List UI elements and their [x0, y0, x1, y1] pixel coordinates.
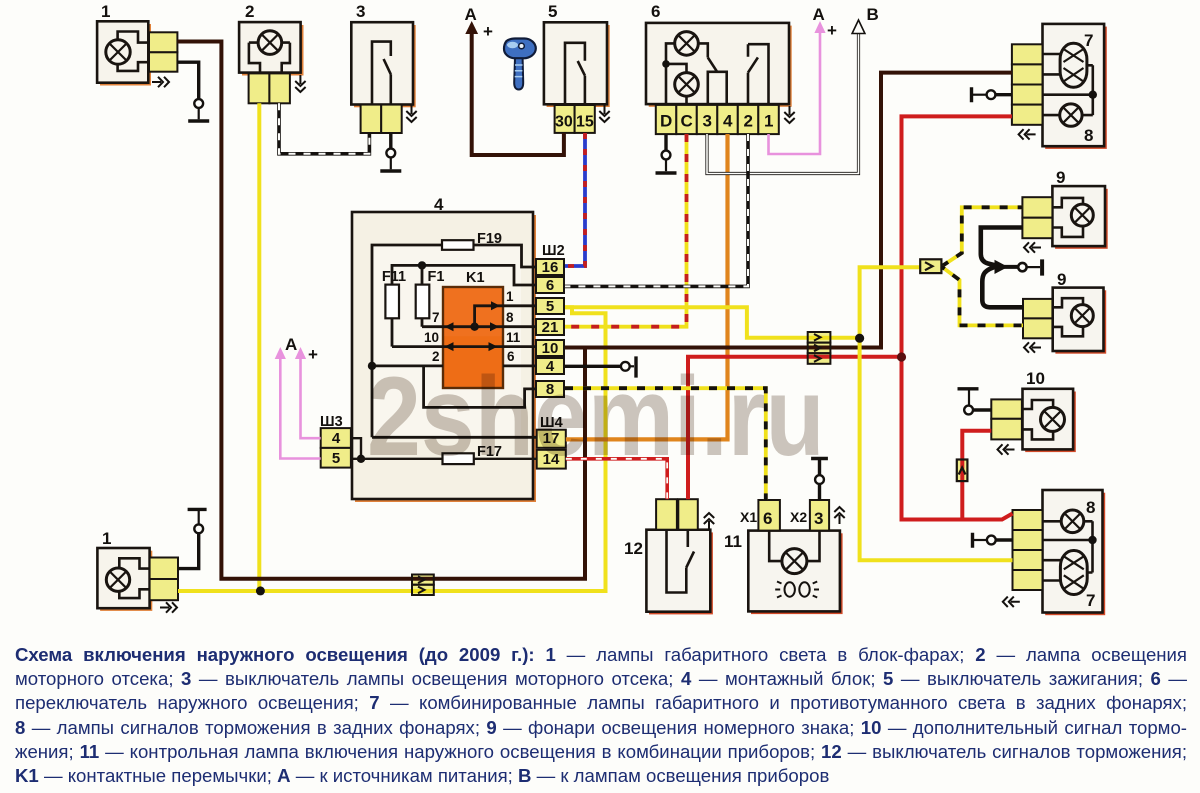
svg-text:A: A: [465, 5, 477, 24]
node yellow rear join: [855, 334, 864, 343]
svg-text:1: 1: [506, 289, 514, 304]
svg-text:6: 6: [763, 509, 772, 528]
rear lamp unit 7/8 lower (brake lamp 8, combined lamp 7): [1043, 490, 1106, 615]
licence plate lamp 9 (second): [1053, 288, 1107, 354]
wire F19 feed loop: [372, 245, 536, 437]
fuse F11: [382, 269, 406, 318]
connector of lamp 2: [249, 73, 290, 103]
jumper line 7-8: [422, 322, 536, 331]
additional brake light 10: [1023, 389, 1076, 452]
label 5: [548, 2, 557, 21]
svg-text:D: D: [660, 112, 672, 131]
svg-text:8: 8: [1084, 126, 1093, 145]
svg-text:3: 3: [356, 2, 365, 21]
svg-text:X1: X1: [740, 509, 757, 525]
arrow B (outline): [852, 20, 865, 34]
svg-text:4: 4: [434, 195, 444, 214]
svg-text:X2: X2: [790, 509, 807, 525]
jumper line 10-11: [392, 342, 536, 351]
svg-text:7: 7: [1086, 591, 1095, 610]
label 6: [651, 2, 660, 21]
wire F1 vertical: [421, 265, 424, 326]
wire line 2-6: [372, 364, 536, 367]
connector X2-3: [790, 500, 829, 531]
svg-text:K1: K1: [466, 270, 485, 286]
svg-text:21: 21: [542, 319, 559, 336]
wire pin 6 to fuse tops: [392, 265, 536, 285]
fuse F17: [443, 444, 503, 464]
lamp unit 1 lower (left block headlamp parking lamp): [97, 548, 152, 611]
ground lamp 1 lower: [178, 509, 207, 568]
svg-text:12: 12: [624, 539, 643, 558]
arrow A (pink): [814, 21, 825, 33]
wire orange: switch 6 pin 4 to Sh4-17: [566, 134, 728, 439]
svg-text:A: A: [285, 335, 297, 354]
svg-text:2: 2: [744, 112, 753, 131]
wire lamp common link lower: [1043, 521, 1093, 572]
node F17 line: [357, 455, 365, 463]
licence plate lamp 9 (first): [1052, 186, 1107, 249]
wire yellow: lamp 2 feed drop: [257, 103, 261, 591]
connector mark (right): [160, 602, 177, 612]
ground indicator lamp X2: [811, 459, 828, 501]
svg-text:5: 5: [546, 298, 554, 315]
svg-text:F1: F1: [428, 269, 445, 285]
wire dark-brown: lamp 1 upper feed loop: [177, 42, 585, 579]
svg-text:+: +: [827, 21, 837, 40]
connector mark (left): [998, 444, 1015, 454]
K1 pin labels: [424, 289, 521, 364]
label A plus (pink top): [813, 5, 838, 40]
wire dark-brown: Sh2-10 to rear lamp 7: [565, 73, 1012, 348]
wire yellow-black dashed: licence lamps split upper: [941, 207, 1022, 266]
wire black: licence lamps ground joint: [981, 228, 1023, 308]
svg-text:1: 1: [764, 112, 773, 131]
label 4: [434, 195, 444, 214]
dual-filament lamp 7 (oval): [1043, 43, 1093, 87]
svg-text:9: 9: [1057, 270, 1066, 289]
label A plus (ignition source): [465, 5, 494, 41]
mounting block 4 (fuse/relay box): [352, 212, 536, 502]
svg-text:2: 2: [245, 2, 254, 21]
wire black: Sh2-4 to body ground: [565, 356, 636, 377]
wire yellow: junction down to lower lamp 7: [860, 338, 1013, 560]
lamp unit 1 (top-left block headlamp parking lamp): [97, 21, 151, 85]
connector of upper 7/8 (four terminals): [1012, 44, 1043, 125]
rear lamp unit 7/8 upper (combined tail/fog lamp 7, brake lamp 8): [1043, 24, 1107, 149]
lamp 8 lower (round): [1043, 510, 1093, 533]
connector of lamp 9 first: [1022, 197, 1052, 238]
indicator lamp 11 (instrument cluster): [748, 531, 842, 615]
connector mark (right arrows): [152, 77, 169, 87]
connector mark (up): [834, 507, 844, 524]
connector of lower lamp 1: [150, 558, 178, 601]
connector Sh2: [536, 243, 565, 398]
connector X1-6: [740, 500, 780, 531]
connector of switch 3: [361, 105, 402, 133]
label K1: [466, 270, 485, 286]
svg-text:9: 9: [1056, 168, 1065, 187]
wire blue-red dashed: ignition 15 to Sh2-16: [565, 133, 585, 266]
label 7 lower: [1086, 591, 1095, 610]
wire to pin 17 (block bottom): [372, 436, 537, 439]
harness connector (vertical, lamp 10 feed): [957, 460, 968, 482]
label 12: [624, 539, 643, 558]
harness connector fills: [412, 259, 967, 595]
connector mark (left): [1024, 242, 1041, 252]
label 9 second: [1057, 270, 1066, 289]
connector of lamp unit 1 (two yellow terminals): [149, 32, 177, 71]
wire pink: Sh3-5 to source A: [280, 354, 320, 459]
lamp 8 (brake, round): [1043, 104, 1093, 126]
ground of lower 7/8: [973, 533, 1013, 548]
wire white: switch 6 pin 3 to arrow B: [707, 29, 859, 174]
wire pink: switch 6 pin 1 to arrow A: [769, 29, 821, 154]
label 1 lower: [102, 529, 111, 548]
label A plus (Sh3 source): [285, 335, 318, 364]
connector of lamp 9 second: [1023, 299, 1052, 338]
arrow A (dark): [465, 21, 478, 34]
svg-text:B: B: [867, 5, 879, 24]
svg-text:7: 7: [1084, 31, 1093, 50]
relay jumpers K1 (orange block): [443, 287, 503, 388]
svg-text:1: 1: [102, 529, 111, 548]
arrow A (pink left 1): [295, 347, 306, 359]
switch 3 (engine bay lamp switch): [351, 22, 415, 107]
node lamp link lower: [1088, 536, 1096, 544]
wire lamp common link: [1043, 65, 1093, 115]
svg-text:7: 7: [432, 310, 440, 325]
wire red: brake switch to rear junction: [688, 357, 902, 499]
svg-text:6: 6: [546, 277, 554, 294]
ground of lamp 10: [958, 389, 992, 415]
label 8 lower: [1086, 498, 1095, 517]
svg-text:1: 1: [101, 2, 110, 21]
wire red: junction to upper lamp 8: [902, 116, 1012, 356]
wire yellow: junction up to licence feed connector: [860, 267, 921, 338]
connector mark: [295, 75, 305, 92]
node lamp link: [1089, 91, 1097, 99]
svg-text:3: 3: [703, 112, 712, 131]
lamp 2 (engine bay illumination lamp): [239, 22, 303, 75]
svg-text:10: 10: [424, 330, 439, 345]
connector mark: [599, 105, 609, 122]
label B (instrument lighting): [867, 5, 879, 24]
ground of upper 7/8: [972, 87, 1012, 102]
svg-text:8: 8: [1086, 498, 1095, 517]
wire red: junction down to lamp 10 and lower lamp 8: [902, 357, 1013, 520]
wire yellow: Sh2-5 to rear harness: [565, 307, 860, 337]
ground switch 3: [380, 149, 401, 171]
wire yellow-black dashed: licence lamps split lower: [941, 267, 1023, 326]
svg-text:11: 11: [724, 532, 742, 551]
instrument light icon: [775, 582, 819, 598]
wire black: lamp 1 upper ground: [177, 62, 198, 99]
ground switch 6 D: [656, 151, 677, 173]
svg-text:4: 4: [332, 430, 341, 447]
fuse F19: [442, 231, 502, 250]
svg-text:F19: F19: [477, 231, 502, 247]
connector of lamp 10: [991, 399, 1022, 439]
harness connector (single, licence lamps feed): [920, 259, 941, 273]
wire F11 to line 10: [391, 318, 394, 347]
label 10: [1026, 369, 1045, 388]
svg-text:15: 15: [576, 114, 594, 131]
connectors of switch 12: [656, 499, 698, 530]
label 2: [245, 2, 254, 21]
jumper line 1: [475, 301, 536, 326]
label 3: [356, 2, 365, 21]
connector of lower 7/8 (four terminals): [1013, 510, 1043, 590]
wire yellow: Sh2-5 branch to front parking lamps: [178, 307, 606, 591]
node licence ground: [995, 260, 1009, 274]
node line 2-6 left: [368, 362, 376, 370]
connector Sh3: [320, 414, 351, 468]
svg-text:4: 4: [723, 112, 733, 131]
ignition switch 5: [544, 22, 610, 107]
svg-text:C: C: [681, 112, 693, 131]
label 11: [724, 532, 742, 551]
wire red-white dashed: Sh4-14 to brake switch: [566, 459, 667, 499]
label 1: [101, 2, 110, 21]
mounting block inner area: [372, 245, 521, 437]
connector mark (left): [1024, 342, 1041, 352]
svg-text:16: 16: [542, 259, 559, 276]
ground licence lamps: [1004, 259, 1042, 275]
wire dark-brown: source A to ignition switch 30: [472, 29, 564, 155]
dual-filament lamp 7 lower (oval): [1043, 551, 1093, 595]
node yellow front join: [256, 586, 265, 595]
svg-text:Ш2: Ш2: [542, 243, 565, 259]
ignition key icon: [504, 39, 536, 90]
light switch 6: [646, 23, 792, 107]
wire yellow-red dashed: switch 6 pin C to Sh2-21: [565, 134, 687, 327]
wire black-white dashed: switch 6 pin 2 to Sh2-6: [565, 134, 748, 286]
label 8 upper: [1084, 126, 1093, 145]
svg-text:A: A: [813, 5, 825, 24]
svg-text:6: 6: [651, 2, 660, 21]
connector Sh4: [537, 415, 566, 469]
svg-text:11: 11: [506, 330, 521, 345]
svg-text:5: 5: [332, 450, 340, 467]
connectors D C 3 4 2 1 of switch 6: [656, 105, 779, 134]
label 7 upper: [1084, 31, 1093, 50]
svg-text:30: 30: [555, 114, 573, 131]
wire yellow-black dashed: Sh2-8 to indicator X1-6: [565, 388, 766, 500]
connector mark (left): [1003, 597, 1020, 607]
connector mark: [406, 105, 416, 122]
wire F17 line to pin 14: [351, 458, 536, 460]
harness connector (double, front-left harness): [412, 575, 434, 596]
node F1 top: [418, 261, 426, 269]
node red junction: [897, 352, 906, 361]
svg-text:+: +: [483, 22, 493, 41]
wire Sh3-4 to F17 line: [351, 438, 361, 459]
connector mark (up): [704, 513, 714, 530]
wire pink: Sh3-4 to source A: [301, 354, 321, 438]
arrow A (pink left 2): [275, 347, 286, 359]
brake light switch 12: [646, 530, 713, 615]
svg-text:8: 8: [506, 310, 514, 325]
wire line 2 to pin 8: [424, 366, 536, 408]
connectors 30 / 15 of switch 5: [555, 105, 595, 133]
connector mark (left): [1019, 129, 1036, 139]
label 9 first: [1056, 168, 1065, 187]
ground lamp 1 upper: [188, 99, 209, 121]
fuse F1: [416, 269, 445, 318]
wire black: switch 6 pin D ground: [664, 134, 667, 151]
connector mark: [784, 106, 794, 123]
svg-text:10: 10: [1026, 369, 1045, 388]
svg-text:3: 3: [814, 509, 823, 528]
wire black-white dashed: lamp 2 to switch 3: [279, 103, 369, 154]
svg-text:+: +: [308, 345, 318, 364]
svg-text:F11: F11: [382, 269, 406, 285]
harness connector (triple, rear harness): [808, 332, 831, 364]
wire black: switch 3 ground: [389, 133, 392, 149]
svg-text:5: 5: [548, 2, 557, 21]
